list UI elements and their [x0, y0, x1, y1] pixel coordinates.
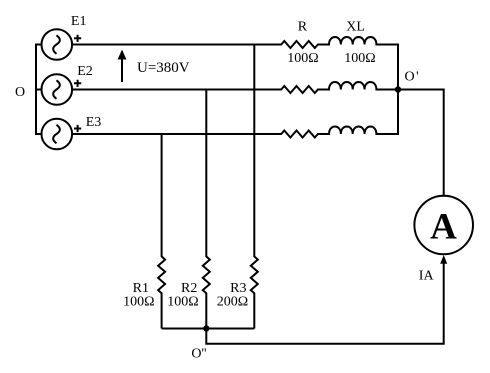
wire left bus from O	[36, 45, 42, 135]
junction node O'	[395, 86, 401, 92]
svg-text:E3: E3	[86, 115, 102, 130]
source E1	[42, 29, 73, 60]
svg-text:U=380V: U=380V	[137, 60, 190, 76]
source E2	[42, 74, 73, 105]
wire phase B with resistor and inductor	[72, 82, 398, 93]
svg-text:200Ω: 200Ω	[217, 295, 248, 310]
svg-text:R: R	[298, 20, 308, 35]
svg-text:XL: XL	[346, 20, 365, 35]
polarity + of E2	[74, 80, 81, 87]
wire O'' to ammeter	[206, 263, 443, 344]
voltage arrow U	[118, 50, 127, 83]
wire O' to ammeter	[398, 90, 444, 196]
svg-text:A: A	[430, 207, 457, 248]
svg-text:O'': O''	[191, 347, 206, 362]
svg-text:100Ω: 100Ω	[344, 51, 375, 66]
svg-text:R3: R3	[230, 281, 246, 296]
resistor R2 branch	[203, 90, 210, 329]
svg-text:E2: E2	[77, 64, 93, 79]
wire right bus	[397, 44, 399, 136]
resistor R3 branch	[251, 45, 258, 329]
wire stub to E2	[36, 89, 42, 91]
wire bottom bus	[162, 328, 255, 330]
svg-text:IA: IA	[419, 269, 435, 284]
wire phase C with resistor and inductor	[72, 127, 398, 138]
wire phase A with resistor R and inductor XL	[72, 37, 398, 48]
svg-text:100Ω: 100Ω	[287, 51, 318, 66]
resistor R1 branch	[158, 134, 165, 329]
svg-text:O': O'	[405, 70, 419, 85]
ammeter U1	[414, 196, 473, 255]
junction node O''	[203, 325, 209, 331]
svg-text:100Ω: 100Ω	[167, 295, 198, 310]
polarity + of E1	[74, 35, 81, 42]
svg-text:R1: R1	[133, 281, 149, 296]
source E3	[42, 119, 73, 150]
svg-text:100Ω: 100Ω	[123, 295, 154, 310]
current arrow into ammeter	[440, 255, 447, 264]
svg-text:R2: R2	[181, 281, 197, 296]
polarity + of E3	[74, 125, 81, 132]
svg-text:O: O	[15, 85, 25, 100]
svg-text:E1: E1	[71, 14, 87, 29]
